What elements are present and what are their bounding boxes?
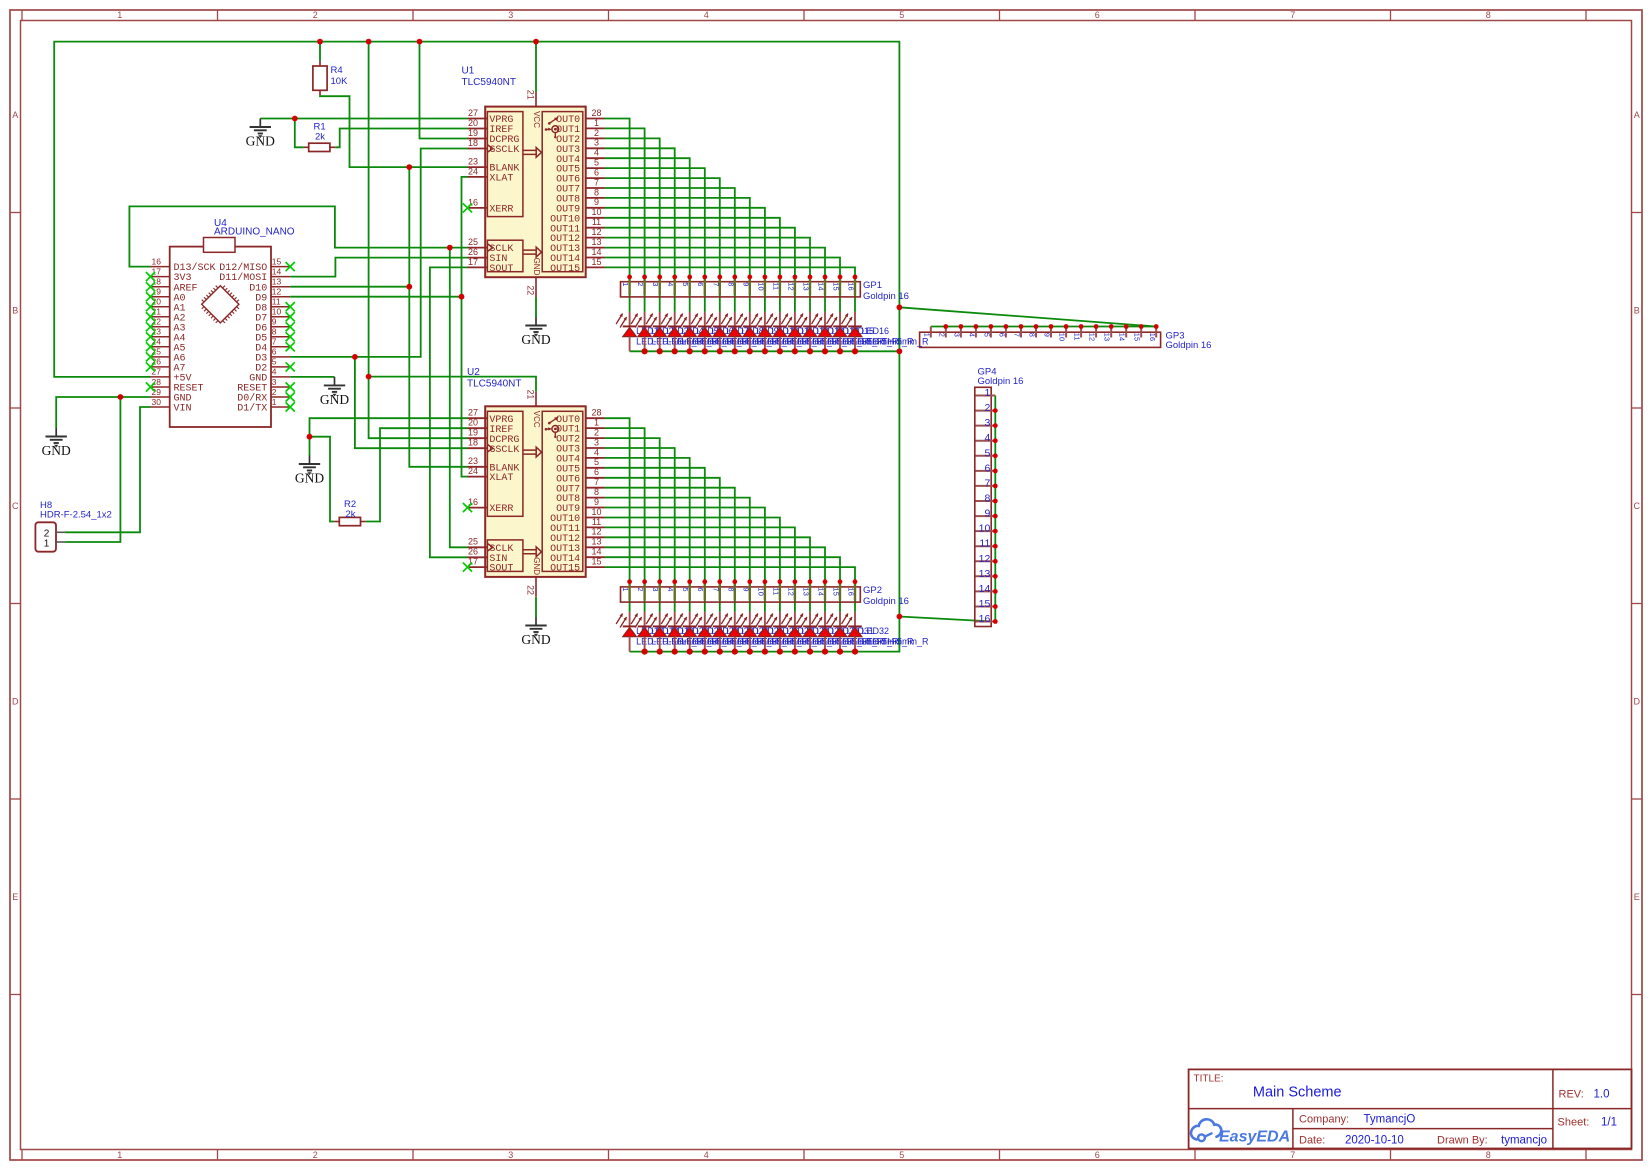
svg-text:19: 19: [468, 128, 478, 138]
svg-text:27: 27: [468, 408, 478, 418]
svg-text:8: 8: [1028, 333, 1037, 337]
svg-text:XERR: XERR: [489, 205, 513, 216]
svg-text:21: 21: [525, 90, 535, 100]
GP4 pin 9: [976, 508, 998, 520]
LED LED31 LED-TH-5mm_R: [827, 612, 915, 655]
svg-text:9: 9: [1043, 333, 1052, 337]
svg-text:4: 4: [594, 447, 599, 457]
svg-text:3: 3: [508, 10, 513, 20]
junction dot LED27 on bus: [777, 649, 783, 655]
connector H8 HDR-F-2.54_1x2: [35, 500, 111, 552]
wire +5V branch to U2 VCC: [369, 377, 536, 392]
GP4 pin 2: [976, 402, 998, 414]
svg-text:GND: GND: [320, 392, 349, 407]
svg-text:TLC5940NT: TLC5940NT: [462, 77, 516, 88]
junction dot LED10 on bus: [762, 348, 768, 354]
svg-text:3: 3: [952, 333, 961, 337]
LED LED32 LED-TH-5mm_R: [842, 612, 930, 655]
svg-text:20: 20: [468, 118, 478, 128]
GP2 pin 11: [771, 579, 782, 600]
svg-text:U1: U1: [462, 66, 475, 77]
U4 pin 25 A6: [151, 347, 186, 365]
U4 pin 13 D10: [249, 277, 290, 295]
wire arduino D11/MOSI to U1 SIN: [290, 258, 467, 277]
svg-text:Main Scheme: Main Scheme: [1253, 1085, 1342, 1101]
LED LED27 LED-TH-5mm_R: [766, 612, 854, 655]
svg-text:TymancjO: TymancjO: [1364, 1114, 1416, 1126]
U1 pin 6 OUT6: [556, 168, 604, 186]
GP3 pin 6: [997, 324, 1008, 337]
U2 pin 17 SOUT no-connect mark: [463, 563, 472, 572]
wire R2 to U2 IREF: [366, 428, 468, 521]
svg-text:15: 15: [832, 282, 841, 291]
U2 pin 23 BLANK: [468, 456, 520, 474]
U1 pin 22 GND: [525, 277, 536, 297]
junction dot BLANK net at U1 row: [406, 164, 412, 170]
U2 pin 22 GND: [525, 577, 536, 597]
U1 pin 14 OUT14: [550, 247, 604, 265]
GP4 pin 15: [976, 598, 998, 610]
svg-text:U2: U2: [467, 367, 480, 378]
U2 pin 4 OUT4: [556, 447, 604, 465]
junction dot LED14 on bus: [822, 348, 828, 354]
svg-text:5: 5: [984, 447, 990, 459]
svg-text:24: 24: [468, 466, 478, 476]
junction dot LED30 on bus: [822, 649, 828, 655]
svg-text:XERR: XERR: [489, 504, 513, 515]
svg-text:1: 1: [621, 282, 630, 286]
U4 pin 30 VIN: [151, 397, 192, 415]
U2 pin 18 GSCLK: [468, 438, 520, 456]
LED LED16 LED-TH-5mm_R: [842, 312, 930, 355]
GP3 pin 1: [922, 327, 931, 338]
svg-text:17: 17: [468, 257, 478, 267]
U2 clock marks: [487, 444, 492, 452]
svg-text:13: 13: [272, 277, 282, 287]
LED LED15 LED-TH-5mm_R: [827, 312, 915, 355]
svg-text:3: 3: [594, 138, 599, 148]
svg-text:13: 13: [802, 282, 811, 291]
GP3 pin 15: [1133, 324, 1144, 341]
U2 pin 16 XERR no-connect mark: [463, 503, 472, 512]
wire rail to U2 DCPRG: [369, 42, 468, 439]
svg-text:LED32: LED32: [862, 626, 890, 636]
wire XLAT net U1 to U2: [462, 177, 468, 477]
svg-text:12: 12: [786, 587, 795, 596]
GP3 pin 16: [1148, 324, 1159, 341]
svg-text:E: E: [12, 892, 18, 902]
svg-text:3: 3: [272, 377, 277, 387]
svg-text:7: 7: [1290, 10, 1295, 20]
GP4 pin 6: [976, 462, 998, 474]
U1 pin 10 OUT10: [550, 207, 604, 225]
junction dot LED8 on bus: [732, 348, 738, 354]
svg-text:4: 4: [704, 10, 709, 20]
svg-text:14: 14: [272, 266, 282, 276]
U1 pin 12 OUT12: [550, 227, 604, 245]
svg-text:3: 3: [984, 417, 990, 429]
svg-text:22: 22: [525, 585, 535, 595]
ground at U2 pin22: [521, 617, 550, 647]
U1 pin 17 SOUT: [468, 257, 514, 275]
U2 data-flow arrows: [523, 447, 542, 457]
GP2 pin 16: [847, 579, 858, 600]
svg-text:13: 13: [591, 537, 601, 547]
svg-text:GSCLK: GSCLK: [489, 145, 519, 156]
LED LED29 LED-TH-5mm_R: [797, 612, 885, 655]
GP1 pin 7: [711, 275, 722, 296]
svg-text:9: 9: [984, 508, 990, 520]
svg-text:TLC5940NT: TLC5940NT: [467, 379, 521, 390]
svg-text:REV:: REV:: [1559, 1089, 1584, 1101]
U4 pin 28 RESET: [151, 377, 204, 395]
svg-text:10: 10: [591, 507, 601, 517]
svg-text:7: 7: [272, 337, 277, 347]
svg-text:16: 16: [847, 282, 856, 291]
IC U2 TLC5940NT: [35, 218, 1631, 1149]
GP4 pin 14: [976, 583, 998, 595]
U4 pin 17 3V3: [151, 266, 192, 284]
svg-text:12: 12: [979, 553, 991, 565]
svg-text:15: 15: [591, 257, 601, 267]
ground at arduino GND pin4: [320, 377, 349, 407]
svg-text:2k: 2k: [346, 509, 356, 520]
svg-text:11: 11: [592, 217, 601, 227]
svg-text:XLAT: XLAT: [489, 473, 513, 484]
svg-text:11: 11: [771, 282, 780, 290]
LED LED5 LED-TH-5mm_R: [676, 312, 764, 355]
wire GND to H8 pin1: [65, 397, 120, 542]
U1 pin 26 SIN: [468, 247, 508, 265]
GP3 pin 7: [1013, 324, 1024, 337]
U4 no-connect marks right side: [286, 262, 295, 412]
svg-text:10: 10: [756, 587, 765, 596]
svg-text:9: 9: [741, 282, 750, 286]
svg-text:GND: GND: [246, 134, 275, 149]
svg-text:ARDUINO_NANO: ARDUINO_NANO: [214, 226, 295, 237]
junction dot LED13 on bus: [807, 348, 813, 354]
svg-text:SOUT: SOUT: [489, 564, 513, 575]
connector GP3 Goldpin 16: [920, 324, 1212, 351]
GP2 pin 15: [832, 579, 843, 600]
svg-text:14: 14: [979, 583, 991, 595]
junction dot LED7 on bus: [717, 348, 723, 354]
U4 no-connect marks left side: [146, 272, 155, 392]
junction dot VPRG/R1 GND node: [292, 116, 298, 122]
U4 pin 14 D11/MOSI: [219, 266, 290, 284]
svg-text:10K: 10K: [331, 76, 349, 87]
wire arduino GND pin4 to ground: [290, 376, 334, 378]
svg-text:VCC: VCC: [532, 411, 541, 428]
svg-text:VIN: VIN: [174, 404, 192, 415]
GP1 pin 6: [696, 275, 707, 296]
U1 pin 20 IREF: [468, 118, 514, 136]
junction dot LED3 on bus: [657, 348, 663, 354]
LED LED22 LED-TH-5mm_R: [691, 612, 779, 655]
svg-text:tymancjo: tymancjo: [1501, 1135, 1547, 1147]
svg-text:5: 5: [899, 1150, 904, 1160]
svg-text:15: 15: [832, 587, 841, 596]
GP2 pin 9: [741, 579, 752, 600]
U2 pin 11 OUT11: [550, 517, 604, 535]
svg-text:13: 13: [802, 587, 811, 596]
svg-text:1.0: 1.0: [1594, 1089, 1610, 1101]
U4 pin 16 D13/SCK: [151, 256, 216, 274]
svg-text:1/1: 1/1: [1601, 1117, 1617, 1129]
svg-text:14: 14: [591, 547, 601, 557]
svg-text:XLAT: XLAT: [489, 174, 513, 185]
svg-text:11: 11: [1073, 333, 1082, 341]
wire arduino D9 to XLAT net: [290, 296, 461, 298]
IC U4 ARDUINO_NANO: [151, 218, 295, 427]
U4 pin 23 A4: [151, 327, 186, 345]
svg-text:6: 6: [272, 347, 277, 357]
LED LED7 LED-TH-5mm_R: [706, 312, 794, 355]
resistor R4 10K: [313, 61, 348, 95]
GP4 pin 13: [976, 568, 998, 580]
U4 pin 2 D0/RX: [237, 387, 290, 405]
GP3 pin 13: [1103, 324, 1114, 341]
wire rail to R4: [319, 42, 321, 61]
GP4 pin 7: [976, 477, 998, 489]
svg-text:9: 9: [594, 497, 599, 507]
junction dot LED28 on bus: [792, 649, 798, 655]
svg-text:OUT15: OUT15: [550, 564, 580, 575]
U4 pin 8 D5: [255, 327, 290, 345]
wire U1 SOUT to U2 SIN: [430, 267, 468, 557]
U4 pin 18 AREF: [151, 277, 198, 295]
svg-text:8: 8: [594, 487, 599, 497]
svg-text:16: 16: [1148, 333, 1157, 342]
U2 OUT0 OUT1 source marks: [525, 390, 558, 597]
svg-text:2: 2: [984, 402, 990, 414]
svg-text:GP1: GP1: [863, 280, 882, 291]
GP3 pin 5: [982, 324, 993, 337]
svg-text:Date:: Date:: [1299, 1135, 1325, 1147]
LED LED1 LED-TH-5mm_R: [616, 312, 704, 351]
ground at U1 VPRG: [246, 119, 275, 149]
svg-text:5: 5: [899, 10, 904, 20]
LED LED2 LED-TH-5mm_R: [631, 312, 719, 355]
wire R4 to U1 BLANK: [320, 95, 468, 167]
svg-text:2: 2: [313, 10, 318, 20]
U4 pin 19 A0: [151, 287, 186, 305]
U4 pin 10 D7: [255, 307, 290, 325]
U2 pin 6 OUT6: [556, 467, 604, 485]
U1 pin 27 VPRG: [468, 108, 514, 126]
svg-text:D: D: [12, 697, 19, 707]
connector GP4 Goldpin 16: [975, 367, 1024, 627]
U4 pin 4 GND: [249, 367, 290, 385]
ground at U1 pin22: [521, 317, 550, 347]
GP1 pin 10: [756, 275, 767, 296]
junction dot LED11 on bus: [777, 348, 783, 354]
U4 pin 29 GND: [151, 387, 192, 405]
U2 pin 28 OUT0: [556, 408, 604, 426]
GP2 pin 4: [666, 579, 677, 600]
junction dot U2 VCC branch: [366, 374, 372, 380]
svg-text:28: 28: [591, 408, 601, 418]
wire U1 VPRG to GND: [260, 118, 467, 120]
wires U2 OUT0-OUT15 staircase to GP2: [605, 418, 856, 612]
svg-text:6: 6: [594, 168, 599, 178]
svg-text:GND: GND: [532, 557, 541, 575]
U2 pin 19 DCPRG: [468, 428, 520, 446]
svg-text:11: 11: [272, 297, 281, 307]
LED LED25 LED-TH-5mm_R: [736, 612, 824, 655]
LED LED10 LED-TH-5mm_R: [751, 312, 839, 355]
U4 pin 15 D12/MISO: [219, 256, 290, 274]
wire U1 GND pin22 to ground: [535, 297, 537, 317]
svg-text:28: 28: [591, 108, 601, 118]
wire arduino GND pin29 to ground: [56, 397, 150, 428]
U1 pin 7 OUT7: [556, 177, 604, 195]
svg-text:23: 23: [468, 456, 478, 466]
svg-text:12: 12: [591, 227, 601, 237]
svg-text:25: 25: [468, 537, 478, 547]
svg-text:10: 10: [591, 207, 601, 217]
GP1 pin 16: [847, 275, 858, 296]
U2 pin 12 OUT12: [550, 527, 604, 545]
svg-text:Goldpin 16: Goldpin 16: [863, 291, 909, 302]
svg-text:14: 14: [817, 282, 826, 291]
junction dot LED5 on bus: [687, 348, 693, 354]
svg-text:B: B: [1634, 305, 1640, 315]
svg-text:13: 13: [979, 568, 991, 580]
svg-text:5: 5: [594, 457, 599, 467]
GP2 pin 5: [681, 579, 692, 600]
GP1 pin 8: [726, 275, 737, 296]
svg-text:5: 5: [272, 357, 277, 367]
GP4 pin 16: [976, 613, 998, 625]
LED LED11 LED-TH-5mm_R: [766, 312, 854, 355]
LED LED18 LED-TH-5mm_R: [631, 612, 719, 655]
LED LED20 LED-TH-5mm_R: [661, 612, 749, 655]
svg-text:10: 10: [272, 307, 282, 317]
svg-text:3: 3: [651, 587, 660, 591]
ground at arduino GND pin29: [42, 428, 71, 458]
GP2 pin 10: [756, 579, 767, 600]
svg-text:5: 5: [681, 587, 690, 591]
svg-text:6: 6: [1095, 1150, 1100, 1160]
svg-text:14: 14: [1118, 333, 1127, 342]
wire GP3 common bus: [931, 326, 1156, 328]
svg-text:10: 10: [1058, 333, 1067, 342]
U4 pin 9 D6: [255, 317, 290, 335]
svg-text:Goldpin 16: Goldpin 16: [1166, 340, 1212, 351]
svg-text:14: 14: [817, 587, 826, 596]
svg-text:4: 4: [704, 1150, 709, 1160]
svg-text:5: 5: [681, 282, 690, 286]
GP1 pin 15: [832, 275, 843, 296]
svg-text:6: 6: [594, 467, 599, 477]
svg-text:30: 30: [152, 397, 162, 407]
wires U1 OUT0-OUT15 staircase to GP1: [605, 119, 856, 312]
junction dot LED22 on bus: [702, 649, 708, 655]
LED LED14 LED-TH-5mm_R: [812, 312, 900, 355]
U1 data-flow arrows: [523, 148, 542, 158]
junction dot right rail at GP3 diagonal: [897, 304, 903, 310]
U4 pin 21 A2: [151, 307, 186, 325]
GP3 pin 4: [967, 324, 978, 337]
svg-text:GP2: GP2: [863, 585, 882, 596]
junction dot LED29 on bus: [807, 649, 813, 655]
U4 pin 7 D4: [255, 337, 290, 355]
svg-text:18: 18: [468, 138, 478, 148]
svg-text:VCC: VCC: [532, 111, 541, 128]
svg-text:8: 8: [594, 187, 599, 197]
LED LED17 LED-TH-5mm_R: [616, 612, 704, 652]
svg-text:7: 7: [711, 282, 720, 286]
LED LED4 LED-TH-5mm_R: [661, 312, 749, 355]
junction dot LED18 on bus: [642, 649, 648, 655]
GP3 pin 8: [1028, 324, 1039, 337]
U4 pin 1 D1/TX: [237, 397, 290, 415]
GP2 pin 13: [802, 579, 813, 600]
U1 pin 21 VCC: [525, 90, 536, 107]
svg-text:16: 16: [152, 256, 162, 266]
svg-text:GND: GND: [42, 443, 71, 458]
junction dot U2 VPRG GND node: [307, 434, 313, 440]
U2 pin 13 OUT13: [550, 537, 604, 555]
wire R1 to GND junction: [295, 119, 304, 148]
svg-text:12: 12: [786, 282, 795, 291]
wire diagonal to GP4 pin16: [899, 617, 995, 622]
svg-text:1: 1: [117, 1150, 122, 1160]
svg-text:GND: GND: [521, 332, 550, 347]
LED LED21 LED-TH-5mm_R: [676, 612, 764, 655]
wire R1 to U1 IREF: [335, 129, 467, 148]
wire arduino D10 to BLANK net: [290, 286, 409, 288]
GP2 pin 6: [696, 579, 707, 600]
junction dot LED32 on bus: [852, 649, 858, 655]
svg-text:EasyEDA: EasyEDA: [1219, 1129, 1290, 1146]
U1 pin 1 OUT1: [556, 118, 604, 136]
junction dot LED26 on bus: [762, 649, 768, 655]
U2 pin 10 OUT10: [550, 507, 604, 525]
svg-text:4: 4: [272, 367, 277, 377]
junction dot right rail at LED16 bus: [897, 348, 903, 354]
U1 pin 16 XERR: [468, 197, 514, 215]
GP3 pin 2: [937, 324, 948, 337]
svg-text:1: 1: [272, 397, 277, 407]
svg-text:3: 3: [508, 1150, 513, 1160]
svg-text:1: 1: [594, 418, 599, 428]
svg-text:1: 1: [621, 587, 630, 591]
junction dot LED4 on bus: [672, 348, 678, 354]
GP2 pin 14: [817, 579, 828, 600]
svg-text:2: 2: [636, 587, 645, 591]
LED LED12 LED-TH-5mm_R: [781, 312, 869, 355]
U1 pin 8 OUT8: [556, 187, 604, 205]
U1 pin 28 OUT0: [556, 108, 604, 126]
junction dot LED31 on bus: [837, 649, 843, 655]
LED LED9 LED-TH-5mm_R: [736, 312, 824, 355]
svg-text:24: 24: [468, 166, 478, 176]
U2 pin 8 OUT8: [556, 487, 604, 505]
U2 pin 1 OUT1: [556, 418, 604, 436]
U1 pin 4 OUT4: [556, 148, 604, 166]
junction dot LED21 on bus: [687, 649, 693, 655]
U4 mcu diamond glyph: [202, 286, 239, 323]
svg-text:Goldpin 16: Goldpin 16: [863, 596, 909, 607]
svg-text:LED-TH-5mm_R: LED-TH-5mm_R: [862, 336, 930, 346]
U4 pin 12 D9: [255, 287, 290, 305]
svg-text:8: 8: [726, 587, 735, 591]
svg-text:6: 6: [1095, 10, 1100, 20]
svg-text:11: 11: [979, 538, 990, 550]
svg-text:6: 6: [696, 282, 705, 286]
